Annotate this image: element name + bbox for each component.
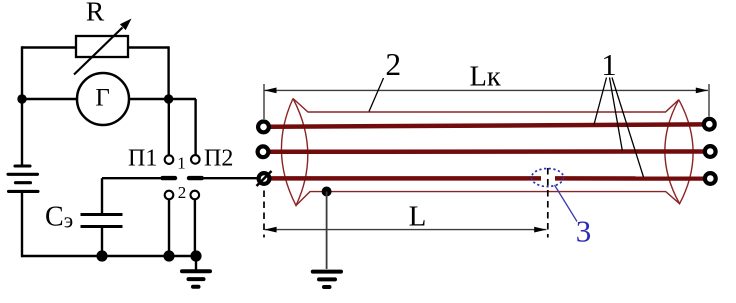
wire blade П1 to capacitor [102,177,161,179]
svg-text:1: 1 [601,48,616,82]
ground left circuit [182,256,210,287]
svg-text:1: 1 [177,154,186,173]
switch П1 contact 2 [165,191,174,200]
node junction right of generator [164,94,173,103]
node on cable sheath (ground tap) [322,187,332,197]
right end ellipse of cable [665,100,693,204]
terminal left 2 [258,146,269,157]
wire П2 contact2 down [194,200,196,258]
terminal right 1 [704,119,715,130]
leader line for 3 [555,185,578,222]
leader lines for 1 [594,78,607,125]
node П1-bottom [163,250,174,261]
terminal right 2 [705,146,716,157]
generator U1 (Г) [77,73,129,125]
wire П1 contact2 down [168,200,170,258]
svg-text:П1: П1 [128,146,157,172]
svg-text:2: 2 [385,47,401,82]
svg-text:L: L [409,200,427,232]
capacitor Сэ [81,215,123,227]
dashed extension left (terminal 3) [263,191,265,238]
dashed extension right (break) [547,168,549,238]
switch П2 contact 2 [191,191,200,200]
node capacitor-bottom [96,250,107,261]
wire П1 pole down from node [168,99,170,156]
dimension L [264,227,546,233]
dimension Lк [264,84,709,119]
wire capacitor drop [101,178,103,213]
conductor 3 right part [555,176,704,181]
terminal left 1 [258,122,269,133]
battery GB [8,166,38,191]
wire sheath to ground [326,192,328,270]
conductor 3 left part (with break) [271,176,541,181]
conductor 2 (middle wire of line) [270,149,703,154]
wire bottom horizontal [22,255,196,257]
terminal left 3 (fed) [257,171,272,186]
wire generator left [22,98,77,100]
wire capacitor to bottom [101,227,103,258]
svg-text:2: 2 [178,183,187,202]
switch П2 contact 1 [191,155,200,164]
ground cable sheath [313,272,341,287]
svg-text:R: R [86,0,105,27]
wire blade П2 to cable [204,177,258,179]
svg-text:3: 3 [576,214,592,249]
wire left vertical upper (to battery) [21,46,23,166]
fault ellipse (break) 3 [532,169,564,187]
wire right vertical from resistor to generator node [167,46,169,99]
wire generator right [129,98,196,100]
resistor R (variable) [74,19,132,75]
wire left vertical lower (battery to bottom) [21,192,23,258]
svg-text:Lк: Lк [470,62,501,93]
wire П2 pole down from corner [194,99,196,156]
conductor 1 (top wire of line) [271,124,703,126]
switch П1 blade [163,176,176,180]
svg-text:Г: Г [95,84,109,111]
node junction left of generator [17,94,26,103]
wire top-left horizontal [22,46,76,48]
wire top-right horizontal [128,46,169,48]
svg-text:П2: П2 [204,146,233,172]
cable body outline (sheath) [293,99,680,206]
switch П1 contact 1 [165,155,174,164]
leader line for 2 [369,78,384,112]
terminal right 3 [705,173,716,184]
switch П2 blade [189,176,202,180]
left end ellipse of cable [281,99,307,206]
node П2-bottom [190,250,201,261]
